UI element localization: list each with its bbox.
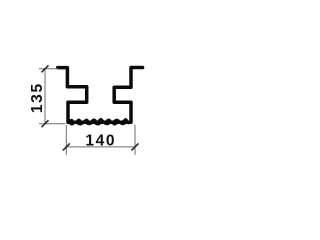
profile outline (extruded channel cross-section) <box>58 68 143 123</box>
subtle wavy bottom of base <box>70 123 129 125</box>
svg-text:140: 140 <box>85 133 116 150</box>
vertical dimension line 135 <box>44 69 46 124</box>
horizontal dimension line 140 <box>66 146 135 148</box>
right extension line <box>134 125 136 155</box>
left extension line <box>65 125 67 155</box>
oblique ticks <box>42 65 139 150</box>
dimension lines <box>39 69 135 155</box>
svg-text:135: 135 <box>29 82 46 113</box>
serrated top of base <box>69 119 130 122</box>
top extension line <box>39 68 59 70</box>
bottom extension line <box>39 123 66 125</box>
